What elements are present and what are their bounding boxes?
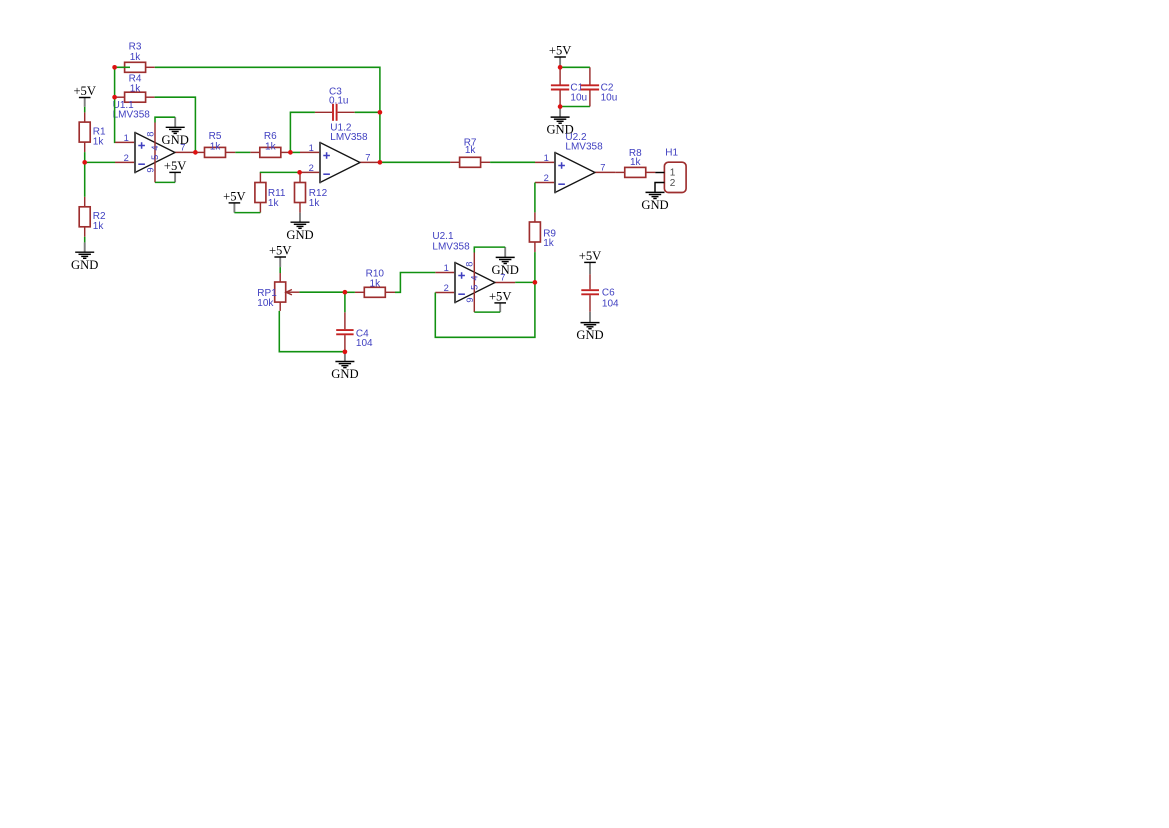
power +5V at C6 (579, 249, 602, 274)
wire node R3/R4 to pin1 (114, 67, 116, 142)
svg-text:10u: 10u (601, 92, 618, 103)
wire RP1 wiper to node (299, 291, 345, 293)
wire C1 to C2 bottom (560, 106, 590, 108)
wire U2.1 feedback loop (435, 282, 535, 337)
svg-text:1: 1 (544, 152, 549, 163)
node R1/R2 divider (82, 160, 87, 165)
op-amp U2.2 (535, 132, 615, 193)
svg-text:9: 9 (145, 167, 155, 172)
svg-text:2: 2 (544, 172, 549, 183)
node R6/C3/U1.2 pin1 (288, 150, 293, 155)
svg-text:1k: 1k (465, 145, 477, 156)
wire U1.1 power bottom to +5V (155, 181, 175, 183)
ground at C1 (546, 107, 573, 137)
svg-text:1: 1 (670, 168, 676, 179)
wire C1 to C2 top (560, 66, 590, 68)
svg-text:C6: C6 (602, 288, 615, 299)
op-amp U1.1 (113, 100, 196, 182)
svg-text:1k: 1k (93, 221, 105, 232)
wire node to U1.1 pin2 (85, 161, 115, 163)
svg-text:R5: R5 (209, 131, 222, 142)
wire U1.2 output to R7 (380, 161, 450, 163)
wire R2 to GND (84, 237, 86, 243)
svg-text:1k: 1k (265, 141, 277, 152)
wire +5V to R1 (84, 107, 86, 113)
wire U2.2 pin2 to R9 (534, 183, 536, 213)
svg-text:104: 104 (602, 299, 619, 310)
power +5V at C1 (549, 43, 572, 67)
svg-text:1k: 1k (130, 83, 142, 94)
svg-text:LMV358: LMV358 (565, 142, 603, 153)
wire R3 to U1.2 output (top feedback) (155, 67, 380, 162)
svg-text:1k: 1k (370, 278, 382, 289)
ground at U1.1 (162, 117, 189, 147)
capacitor C4 (336, 312, 373, 352)
connector H1 (655, 147, 686, 192)
node C1 top (558, 65, 563, 70)
svg-text:R6: R6 (264, 131, 277, 142)
wire R3 left overlay (115, 66, 130, 68)
resistor R6 (250, 131, 290, 157)
wire U2.1 output to node (515, 281, 535, 283)
svg-text:2: 2 (444, 282, 449, 293)
power +5V at R11 (223, 189, 246, 212)
resistor R3 (115, 42, 155, 73)
node U1.1 output (193, 150, 198, 155)
node R11/R12/U1.2 pin2 (297, 170, 302, 175)
wire R5 to R6 (235, 151, 250, 153)
wire C3 right to node (355, 111, 380, 113)
svg-text:H1: H1 (665, 147, 678, 158)
resistor R9 (529, 212, 556, 252)
resistor R7 (450, 137, 490, 167)
svg-text:10k: 10k (257, 298, 274, 309)
svg-text:2: 2 (670, 178, 676, 189)
svg-text:8: 8 (145, 132, 155, 137)
power +5V at U2.1 (489, 289, 512, 312)
wire C3 left to node (290, 112, 315, 152)
wire +5V to RP1 (279, 267, 281, 273)
svg-text:104: 104 (356, 338, 373, 349)
svg-text:1k: 1k (543, 238, 555, 249)
capacitor C3 (315, 86, 355, 121)
svg-text:2: 2 (309, 162, 314, 173)
svg-text:LMV358: LMV358 (432, 241, 470, 252)
ground at U2.1 (492, 247, 519, 277)
capacitor C1 (551, 67, 587, 106)
resistor R4 (115, 73, 155, 102)
svg-text:9: 9 (465, 297, 475, 302)
node R3 left (112, 65, 117, 70)
svg-text:0.1u: 0.1u (329, 95, 348, 106)
wire node to C4 (344, 292, 346, 312)
svg-text:1k: 1k (130, 52, 142, 63)
svg-text:LMV358: LMV358 (330, 132, 368, 143)
wire R10 to U2.1 pin1 (395, 273, 435, 293)
wire R6 to U1.2 pin1 (290, 151, 300, 153)
svg-text:1k: 1k (309, 198, 321, 209)
resistor R8 (615, 148, 655, 178)
node R4 left (112, 95, 117, 100)
svg-text:1: 1 (309, 142, 314, 153)
node U2.1 output (533, 280, 538, 285)
svg-text:8: 8 (465, 262, 475, 267)
resistor R10 (355, 268, 395, 297)
wire R4 to U1.1 output (155, 97, 196, 152)
node C1 bottom (558, 104, 563, 109)
svg-text:1k: 1k (93, 137, 105, 148)
svg-text:4: 4 (469, 275, 479, 280)
resistor R11 (255, 172, 286, 212)
op-amp U1.2 (300, 122, 380, 183)
wire R1 to R2 (84, 152, 86, 197)
power +5V at RP1 (269, 243, 292, 267)
svg-text:7: 7 (365, 151, 370, 162)
svg-text:4: 4 (150, 145, 160, 150)
resistor R5 (195, 131, 235, 157)
node U1.2 output (378, 160, 383, 165)
ground at C6 (576, 312, 603, 342)
op-amp U2.1 (432, 231, 515, 312)
ground at R12 (286, 213, 313, 242)
wire R11 to U1.2 pin2 (260, 171, 300, 173)
svg-text:1: 1 (444, 262, 449, 273)
node C4 bottom (343, 349, 348, 354)
svg-text:5: 5 (150, 155, 160, 160)
wire R7 to U2.2 pin1 (490, 161, 535, 163)
svg-text:2: 2 (124, 152, 129, 163)
svg-text:1: 1 (124, 132, 129, 143)
node RP1 wiper (343, 290, 348, 295)
resistor R2 (79, 197, 106, 237)
svg-text:1k: 1k (630, 157, 642, 168)
wire U2.1 power bottom to +5V (474, 311, 500, 313)
power +5V at R1 (73, 84, 96, 107)
capacitor C2 (581, 67, 618, 106)
svg-text:1k: 1k (210, 141, 222, 152)
wire U1.1 power top to GND (155, 117, 175, 122)
wire R9 to node (534, 252, 536, 282)
wire node to R10 (345, 291, 355, 293)
wire RP1 bottom to C4 bottom (279, 311, 345, 352)
svg-text:10u: 10u (570, 92, 587, 103)
ground at H1 (641, 192, 668, 212)
node C3 right (378, 110, 383, 115)
svg-text:LMV358: LMV358 (113, 110, 151, 121)
wire +5V to R11 bottom (234, 212, 260, 214)
svg-text:7: 7 (600, 161, 605, 172)
wire U2.1 power top to GND (474, 247, 505, 252)
resistor R12 (295, 172, 328, 212)
resistor R1 (79, 112, 106, 152)
potentiometer RP1 (257, 273, 299, 311)
power +5V at U1.1 (164, 159, 187, 183)
ground at C4 (331, 352, 358, 381)
svg-text:5: 5 (469, 285, 479, 290)
capacitor C6 (581, 274, 619, 312)
svg-text:1k: 1k (268, 198, 280, 209)
ground at R2 (71, 242, 98, 271)
